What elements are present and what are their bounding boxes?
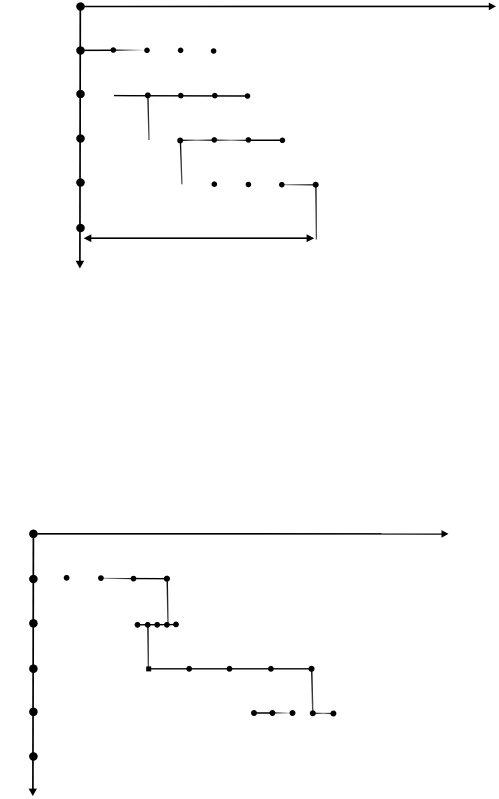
row3 drop wire to row4 level [180, 141, 182, 184]
row3 wire segment b [214, 139, 248, 141]
axis node (80,6) [76, 2, 85, 11]
row2 dot (168,625) [164, 622, 170, 628]
axis node (80,228) [76, 224, 85, 233]
row1 wire fading start [101, 577, 134, 579]
axis node (80,138) [76, 134, 85, 143]
row1 dot (101,578) [98, 575, 104, 581]
row4 drop wire to span arrow [315, 186, 318, 240]
axis node (80,50) [76, 46, 85, 55]
row3 dot (189,669) [186, 666, 192, 672]
row3 wire segment c [248, 139, 282, 141]
row3 corner dot (149,669) [146, 666, 151, 671]
row3 wire [149, 668, 312, 670]
row4 dot (316,185) [313, 182, 319, 188]
span double arrow [89, 237, 308, 239]
row2 wire [114, 95, 248, 97]
row4 dot (293,713) [290, 710, 296, 716]
x-axis arrowhead (right) [489, 3, 496, 11]
row2 dot (137,625) [135, 622, 141, 628]
row1 dot (147,50) [144, 48, 150, 54]
row2 drop wire to row3 level [147, 625, 150, 668]
row1 dot (181,50) [178, 48, 184, 54]
x-axis arrow (top horizontal) [81, 5, 491, 7]
row3 dot (248,140) [246, 137, 252, 143]
row3 dot (311,669) [308, 666, 314, 672]
row4 dot (248,184) [246, 182, 252, 188]
row4 dot (333,713) [330, 711, 336, 717]
row2 wire [138, 624, 177, 626]
row1 wire solid segment [81, 49, 114, 51]
row2 dot (181,95) [178, 93, 184, 99]
row3 dot (282,140) [280, 138, 286, 144]
row2 dot (158,625) [154, 622, 160, 628]
row1 drop wire to row2 level [166, 579, 169, 624]
y-axis (vertical) [79, 7, 81, 262]
y-axis arrowhead (down) [29, 789, 37, 796]
span arrowhead left [84, 234, 92, 242]
row1 dot (167,579) [164, 576, 170, 582]
axis node (33,669) [29, 664, 38, 673]
row4 dot (313,713) [310, 710, 316, 716]
row1 dot (113,50) [111, 47, 117, 53]
x-axis arrow (horizontal) [33, 533, 443, 535]
row4 dot (214,184) [212, 181, 218, 187]
axis node (33,623) [29, 619, 38, 628]
row4 dot (282,185) [279, 182, 285, 188]
x-axis arrowhead (right) [442, 530, 449, 538]
axis node (33,712) [29, 708, 38, 717]
row4 wire [282, 184, 316, 186]
row2 drop wire to row3 level [148, 96, 149, 140]
row4 dot (272,713) [269, 710, 275, 716]
row1 dot (133,579) [131, 576, 137, 582]
row3 dot (214,140) [212, 137, 218, 143]
y-axis arrowhead (down) [76, 261, 85, 269]
row2 dot (177,624) [173, 622, 179, 628]
row4 wire right [313, 712, 334, 714]
row3 wire segment a [180, 139, 214, 141]
row4 wire left b [272, 712, 292, 714]
axis node (80,94) [76, 90, 85, 99]
y-axis (vertical) [32, 534, 35, 790]
row3 dot (271,669) [268, 666, 274, 672]
axis node (33,579) [29, 575, 38, 584]
row2 dot (149,625) [145, 622, 151, 628]
span arrowhead right [307, 234, 315, 242]
axis node (33,534) [29, 530, 38, 539]
row2 dot (248,96) [245, 93, 251, 99]
row2 dot (148,95) [145, 92, 151, 98]
row1 wire fading segment [114, 49, 146, 51]
row4 dot (254,713) [251, 710, 257, 716]
row3 drop wire to row4 level [312, 669, 313, 713]
row3 dot (229,669) [227, 666, 233, 672]
row3 dot (180,140) [177, 138, 183, 144]
row4 wire left a [254, 712, 272, 714]
axis node (33,756) [29, 752, 38, 761]
row1 dot (214,51) [211, 48, 217, 54]
axis node (80,183) [76, 178, 85, 187]
row1 wire solid [134, 578, 167, 580]
row1 dot (67,578) [64, 575, 70, 581]
row2 dot (215,95) [212, 93, 218, 99]
